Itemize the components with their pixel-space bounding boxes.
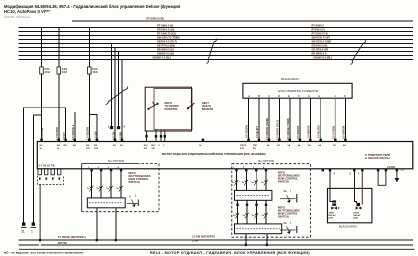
wire fuse drop F21	[41, 28, 43, 68]
svg-text:5a: 5a	[242, 182, 245, 184]
svg-text:BR-WS/0.5 S: BR-WS/0.5 S	[312, 52, 327, 55]
box2 text 2	[278, 206, 300, 219]
footer rule	[19, 248, 415, 250]
box1 pins on unit edge	[90, 169, 122, 172]
box1 text	[129, 171, 151, 184]
svg-text:0.5 SW/GN: 0.5 SW/GN	[341, 126, 345, 139]
wire fuse drop F24	[88, 28, 90, 68]
svg-text:5A: 5A	[308, 144, 311, 147]
svg-text:No OPTION: No OPTION	[108, 159, 124, 163]
svg-text:RELAY: RELAY	[329, 214, 337, 217]
left connector inner ticks	[39, 178, 60, 180]
bus line 5	[19, 43, 414, 45]
box2 wires to L2	[246, 234, 267, 245]
wire to L1 from left connector	[39, 185, 41, 241]
svg-text:E: E	[288, 94, 290, 98]
dashed option box 1	[82, 164, 159, 212]
svg-text:GN/WS-0.5 (B): GN/WS-0.5 (B)	[157, 52, 174, 55]
svg-text:НС10, AutoPass II VI***: НС10, AutoPass II VI***	[4, 9, 50, 14]
svg-text:G: G	[308, 94, 311, 98]
svg-text:TM7M: TM7M	[240, 145, 246, 147]
wire fuse drop F23	[58, 28, 60, 68]
relay comp 1	[332, 200, 336, 205]
svg-text:0.5 BL/WS: 0.5 BL/WS	[317, 125, 321, 138]
bus line 2	[19, 31, 414, 33]
svg-text:GE/GN-0.5 (TILT): GE/GN-0.5 (TILT)	[157, 40, 177, 43]
terminal end wire 33	[31, 223, 36, 228]
svg-text:TR1: TR1	[86, 148, 91, 150]
svg-text:B1: B1	[113, 145, 117, 147]
svg-text:C: C	[268, 94, 271, 98]
box1 wires down	[92, 171, 122, 198]
svg-text:0.5 GN/SW (TRIM): 0.5 GN/SW (TRIM)	[265, 118, 269, 140]
svg-text:1: 1	[31, 230, 33, 234]
break slash on bus right	[351, 40, 366, 65]
unit top pin labels	[40, 144, 347, 150]
svg-text:A: A	[248, 94, 250, 98]
wire link H3	[89, 115, 97, 142]
svg-text:5a: 5a	[252, 215, 255, 217]
right relay box wires	[330, 169, 357, 203]
box2 wires group2	[238, 200, 267, 224]
svg-text:J: J	[334, 94, 336, 98]
svg-text:1: 1	[290, 189, 292, 193]
fuse F24	[88, 67, 92, 74]
svg-text:RT/GN-0.5 (15): RT/GN-0.5 (15)	[157, 28, 174, 31]
svg-text:RELAY: RELAY	[353, 214, 361, 217]
svg-text:5a: 5a	[107, 188, 110, 190]
bottom rails	[19, 240, 414, 245]
fuse F21	[40, 67, 44, 74]
wire link H2	[33, 115, 41, 223]
svg-text:0.5 GE/RT (TILT): 0.5 GE/RT (TILT)	[275, 120, 279, 140]
bus line 9	[19, 59, 414, 61]
svg-text:GY TW GY TW: GY TW GY TW	[39, 165, 56, 168]
svg-text:2.5 SW/GE (БАТАРЕЯ+): 2.5 SW/GE (БАТАРЕЯ+)	[58, 236, 86, 239]
svg-text:B SW: B SW	[192, 239, 199, 242]
svg-text:14: 14	[199, 144, 202, 147]
svg-text:2.5 SW (БАТАРЕЯ-): 2.5 SW (БАТАРЕЯ-)	[192, 235, 215, 238]
svg-text:15: 15	[57, 148, 60, 150]
bus labels group B	[312, 24, 332, 59]
svg-text:K: K	[344, 94, 346, 98]
svg-text:H: H	[318, 94, 320, 98]
rotated wire labels right drops	[245, 118, 346, 140]
svg-text:SW-GE/0.5 GN/R: SW-GE/0.5 GN/R	[312, 40, 332, 43]
svg-text:B9: B9	[253, 148, 257, 150]
svg-text:RE14 - МОТОР ОТД/НАКЛ - ГИДРАВ: RE14 - МОТОР ОТД/НАКЛ - ГИДРАВЛИЧ. БЛОК …	[150, 251, 310, 255]
svg-text:МОТОР ОТД/НАКЛ (ГИДРАВЛИЧЕСКИЙ: МОТОР ОТД/НАКЛ (ГИДРАВЛИЧЕСКИЙ БЛОК УПРА…	[162, 152, 266, 156]
svg-text:M3: M3	[64, 145, 68, 147]
svg-text:2a: 2a	[284, 221, 287, 225]
bus line 1	[19, 27, 414, 29]
svg-text:2: 2	[350, 172, 352, 176]
svg-text:No OPTION: No OPTION	[258, 159, 274, 163]
svg-text:5a: 5a	[262, 215, 265, 217]
svg-text:7A: 7A	[333, 144, 336, 147]
svg-text:SWITCH): SWITCH)	[278, 180, 289, 184]
left bottom connector dashed shell	[38, 176, 64, 185]
svg-text:LG/SW: LG/SW	[387, 166, 396, 169]
svg-text:GE-RT/0.5 WS: GE-RT/0.5 WS	[312, 48, 329, 51]
svg-text:5a: 5a	[252, 182, 255, 184]
svg-text:0.5 GN/GE (TRIM): 0.5 GN/GE (TRIM)	[286, 118, 290, 140]
bus line 3	[19, 35, 414, 37]
svg-text:1.5 RT/GE: 1.5 RT/GE	[40, 127, 44, 140]
svg-text:0.5 GE/SW: 0.5 GE/SW	[245, 124, 249, 138]
svg-text:Y: Y	[163, 145, 165, 147]
right relay box	[328, 188, 372, 222]
svg-text:POSITION: POSITION	[165, 107, 178, 111]
bus line 7	[19, 51, 414, 53]
svg-text:B: B	[258, 94, 260, 98]
bus line 4	[19, 39, 414, 41]
svg-text:GE-RT/0.5 (DN): GE-RT/0.5 (DN)	[157, 44, 175, 47]
switch S2	[187, 103, 194, 109]
svg-text:1.5 RT/SW: 1.5 RT/SW	[55, 127, 59, 140]
svg-text:15A: 15A	[92, 70, 98, 74]
box1 switches	[89, 186, 122, 192]
svg-text:3A: 3A	[287, 144, 290, 147]
svg-text:мО - не видоизм. или схема пов: мО - не видоизм. или схема повторного пр…	[4, 250, 84, 254]
svg-text:1A: 1A	[267, 144, 270, 147]
svg-text:5a: 5a	[87, 188, 90, 190]
svg-text:A10: A10	[240, 147, 245, 150]
U loop jumper	[378, 169, 386, 186]
svg-text:GE/GN-0.5 BL: GE/GN-0.5 BL	[312, 44, 329, 47]
main unit box	[37, 142, 413, 169]
connector drops	[249, 98, 346, 141]
svg-text:TM7: TM7	[253, 145, 258, 147]
svg-text:SWITCH): SWITCH)	[129, 180, 140, 184]
wire stub x75	[74, 112, 76, 142]
box2 switches group1	[234, 180, 267, 186]
svg-text:SW-GE/0.75 WT: SW-GE/0.75 WT	[312, 36, 331, 39]
svg-text:5a: 5a	[117, 188, 120, 190]
wire link H1	[24, 108, 66, 223]
box2 wires group1	[237, 171, 267, 190]
svg-text:1W: 1W	[151, 148, 155, 150]
svg-text:12VDC OPERATION CONNECTOR: 12VDC OPERATION CONNECTOR	[278, 89, 319, 93]
svg-text:1: 1	[290, 220, 292, 224]
box2 sub connector A	[235, 190, 272, 200]
svg-text:SW-GE/0.75 (TRIM): SW-GE/0.75 (TRIM)	[157, 36, 180, 39]
svg-text:SENSOR: SENSOR	[202, 107, 213, 111]
svg-text:15A: 15A	[62, 70, 68, 74]
svg-text:GN/WS-0.5 (BL): GN/WS-0.5 (BL)	[313, 56, 332, 59]
svg-text:(UP): (UP)	[329, 218, 334, 220]
svg-text:1994-99 - A5/Schema: 1994-99 - A5/Schema	[4, 15, 31, 19]
svg-text:1.0 GE/SW: 1.0 GE/SW	[86, 126, 90, 140]
svg-text:X: X	[158, 145, 160, 147]
dashed option box 2	[232, 164, 311, 238]
svg-text:RT-SW/0.5 (X): RT-SW/0.5 (X)	[157, 24, 173, 27]
wire mid group	[111, 44, 113, 127]
svg-text:5a: 5a	[233, 215, 236, 217]
svg-text:4A: 4A	[298, 144, 301, 147]
svg-text:RT-GN/0.75 (X2): RT-GN/0.75 (X2)	[157, 32, 176, 35]
terminal end wire 24	[21, 223, 27, 228]
svg-text:31: 31	[21, 230, 25, 234]
svg-text:5a: 5a	[97, 188, 100, 190]
break slash mid-left verticals	[106, 87, 128, 105]
svg-text:(DN): (DN)	[353, 218, 358, 220]
svg-text:BATT/W: BATT/W	[58, 242, 68, 245]
svg-text:TR2: TR2	[94, 148, 99, 150]
box2 switches group2	[235, 213, 267, 219]
svg-text:5a: 5a	[232, 182, 235, 184]
sensor box outer	[145, 87, 191, 131]
svg-text:BLACK/GRAY: BLACK/GRAY	[339, 224, 357, 228]
svg-text:15A: 15A	[45, 70, 51, 74]
svg-text:w СЕНСОР МАССЫ: w СЕНСОР МАССЫ	[365, 156, 390, 160]
svg-text:5a: 5a	[243, 215, 246, 217]
svg-text:5a: 5a	[261, 182, 264, 184]
svg-text:0.5 BR/GE: 0.5 BR/GE	[306, 125, 310, 138]
svg-text:1: 1	[358, 172, 360, 176]
terminal end mid wires	[110, 127, 119, 129]
left bottom connector pins	[38, 169, 61, 175]
svg-text:4: 4	[334, 172, 336, 176]
box2 text 1	[278, 171, 300, 184]
rail L1	[19, 239, 414, 241]
bus line 8	[19, 55, 414, 57]
svg-text:M4: M4	[73, 144, 77, 147]
svg-text:1: 1	[135, 194, 137, 198]
svg-text:2: 2	[129, 195, 131, 199]
svg-text:0.5 SW/GE 1: 0.5 SW/GE 1	[71, 124, 75, 140]
switch S1	[148, 103, 158, 109]
svg-text:2A: 2A	[277, 144, 280, 147]
box1 wires to L1	[97, 208, 116, 240]
svg-text:2a: 2a	[284, 189, 287, 193]
svg-text:2W: 2W	[144, 148, 148, 150]
svg-text:8A: 8A	[343, 144, 346, 147]
bus line 0	[72, 20, 413, 22]
rail L2	[19, 244, 40, 246]
svg-text:D: D	[278, 94, 281, 98]
box2 pins on unit edge	[235, 169, 267, 172]
bus labels group A	[147, 18, 180, 60]
svg-text:F: F	[298, 94, 300, 98]
rail junctions	[39, 239, 268, 246]
rotated wire labels left drops	[40, 124, 122, 140]
box1 sub connector	[87, 198, 125, 208]
sensor stubs	[147, 130, 165, 142]
svg-text:RT-GN/0.75 W: RT-GN/0.75 W	[312, 32, 329, 35]
fuse F23	[57, 67, 61, 74]
bus line 6	[19, 47, 414, 49]
relay comp 2	[357, 203, 361, 206]
svg-text:30: 30	[40, 148, 43, 150]
svg-text:RT/GN-0.5 I: RT/GN-0.5 I	[312, 28, 326, 31]
svg-text:RT-SW/0.5 (30): RT-SW/0.5 (30)	[147, 18, 165, 21]
sensor box inner (maroon)	[154, 89, 192, 130]
svg-text:LG: LG	[401, 169, 404, 172]
svg-text:0.5 SW/WS: 0.5 SW/WS	[296, 125, 300, 139]
svg-text:SWITCH): SWITCH)	[278, 215, 289, 219]
svg-text:1: 1	[108, 125, 110, 129]
svg-text:BR-WS/0.5 (S): BR-WS/0.5 (S)	[157, 48, 174, 51]
arrow wire to ground	[396, 169, 398, 178]
svg-text:0.5 BL/RT: 0.5 BL/RT	[255, 126, 259, 138]
svg-text:0.5 GY/SW: 0.5 GY/SW	[331, 125, 335, 139]
svg-text:GN/WS-0.5 (BL): GN/WS-0.5 (BL)	[153, 56, 172, 59]
svg-text:RT-SW/0.5: RT-SW/0.5	[312, 24, 325, 27]
svg-text:6A: 6A	[318, 144, 321, 147]
svg-text:B2: B2	[120, 145, 124, 147]
box2 sub connector B	[235, 224, 282, 234]
break slash on bus mid	[207, 39, 217, 64]
svg-text:BLACK/GRAY: BLACK/GRAY	[281, 77, 299, 81]
right pins stubs	[322, 169, 399, 172]
box2 symbol 2	[280, 220, 297, 234]
box2 group2 pin ticks	[236, 204, 267, 206]
unit top pins	[40, 139, 346, 142]
svg-text:5: 5	[124, 125, 126, 129]
box2 symbol 1	[280, 189, 297, 203]
